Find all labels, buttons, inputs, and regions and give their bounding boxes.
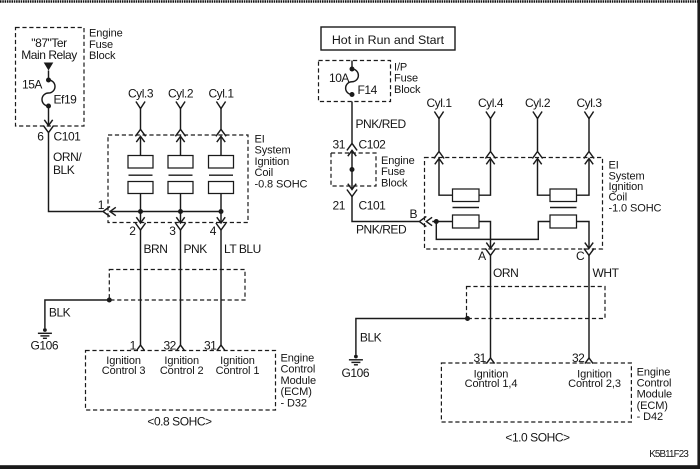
svg-text:3: 3 [169,224,176,238]
svg-text:Cyl.1: Cyl.1 [208,87,234,101]
coil box bottom connector pin 3 [175,217,185,230]
wire primary 2,3 to node C [577,222,590,249]
EI System Ignition Coil box (1.0 SOHC) dashed [425,158,603,250]
svg-text:Fuse: Fuse [89,39,113,51]
junction node bus/coil 3 [219,209,224,214]
relay "87"Ter Main Relay dashed box [16,28,85,127]
spark plug connector Cyl.4 (right) [486,112,495,119]
svg-text:21: 21 [333,199,346,213]
svg-text:Control 1,4: Control 1,4 [465,378,518,390]
coil core line 2 [169,174,193,176]
wire B to junction [432,221,452,223]
wire primary to bus [220,194,222,212]
wire Cyl.3 to coil box [140,109,142,130]
wire coil 3 down to box edge [220,212,222,224]
connector node B into coil box [419,216,432,226]
wire Cyl.3 to coil box (right) [588,119,590,152]
spark plug connector Cyl.1 [216,102,225,109]
coil box bottom connector node A [485,243,495,256]
wire primary to bus [180,194,182,212]
svg-text:1: 1 [98,198,105,212]
coil box top connector Cyl.2 (right) [532,152,542,165]
wire fuse to connector C101 [48,106,50,126]
spark plug connector Cyl.1 (right) [434,112,443,119]
svg-text:<1.0 SOHC>: <1.0 SOHC> [505,431,570,445]
coil box top connector Cyl.1 (right) [434,152,444,165]
coil box bottom connector pin 4 [216,217,226,230]
junction node engine fuse block [350,167,355,172]
svg-text:Ignition: Ignition [255,156,290,168]
svg-text:Cyl.3: Cyl.3 [576,96,602,110]
right border bar [697,0,700,469]
wire through engine fuse block [351,150,353,189]
svg-text:B: B [409,207,417,221]
svg-text:PNK: PNK [184,242,208,256]
svg-text:C102: C102 [359,138,387,152]
svg-text:ORN/: ORN/ [53,150,82,164]
fuse Ef19 15A [42,78,55,109]
ignition coil secondary winding 1 [128,156,153,169]
coil box top connector Cyl.2 [175,129,185,142]
coil box bottom connector node C [584,243,594,256]
coil box top connector Cyl.1 [216,129,226,142]
spark plug connector Cyl.2 (right) [533,112,542,119]
svg-text:PNK/RED: PNK/RED [356,117,407,131]
connector C101 pin 21 [347,184,357,197]
wire PNK/RED to node B [352,197,419,222]
wire Cyl.2 to secondary left end [538,159,551,196]
wire Cyl.4 to secondary right end [479,159,491,196]
wire Cyl.1 to coil box [220,109,222,130]
Hot in Run and Start title box [321,27,455,50]
wire Cyl.2 to coil box (right) [537,119,539,152]
coil 1,4 secondary winding [453,189,480,202]
svg-text:Block: Block [394,84,421,96]
wire primary to bus [140,194,142,212]
svg-text:Cyl.4: Cyl.4 [478,96,504,110]
coil 2,3 core line [550,207,577,209]
junction node shield/ground [107,298,112,303]
svg-text:Block: Block [89,50,116,62]
svg-text:BLK: BLK [49,306,71,320]
wire Cyl.4 to coil box (right) [490,119,492,152]
svg-text:PNK/RED: PNK/RED [356,223,407,237]
coil 1,4 core line [453,207,480,209]
Engine Fuse Block dashed box (right) [331,153,376,186]
junction node bus/coil 2 [178,209,183,214]
wire relay to fuse [48,71,50,81]
svg-text:10A: 10A [329,71,349,85]
feed wire B to coil 2,3 primary [436,222,550,240]
svg-text:Engine: Engine [381,155,415,167]
svg-text:Control 3: Control 3 [102,365,146,377]
wire coil 2 down to box edge [180,212,182,224]
wire WHT node C to ECM [588,255,590,358]
wire Cyl.1 to coil box (right) [438,119,440,152]
wire BLK to ground [45,300,109,328]
wire into secondary [140,136,142,155]
svg-text:C101: C101 [54,130,82,144]
wire ORN/BLK [49,133,103,212]
svg-text:System: System [255,145,291,157]
wire primary 1,4 to node A [479,222,491,249]
svg-text:15A: 15A [22,78,42,92]
wire PNK/RED fuse to C102 [351,102,353,144]
svg-text:Cyl.3: Cyl.3 [128,87,154,101]
svg-text:Cyl.1: Cyl.1 [426,96,452,110]
ground G106 (left) [38,328,52,338]
svg-text:-0.8 SOHC: -0.8 SOHC [255,178,308,190]
EI System Ignition Coil box (0.8 SOHC) dashed [108,135,248,223]
svg-text:LT BLU: LT BLU [224,242,261,256]
fuse F14 10A [346,67,359,98]
spark plug connector Cyl.2 [176,102,185,109]
svg-text:WHT: WHT [593,266,620,280]
ignition coil primary winding 3 [209,182,234,194]
svg-text:A: A [478,249,486,263]
coil box top connector Cyl.4 (right) [485,152,495,165]
wire Cyl.1 to secondary left end [439,159,453,196]
svg-text:-1.0 SOHC: -1.0 SOHC [609,202,662,214]
ignition coil secondary winding 3 [209,156,234,169]
ignition coil primary winding 2 [168,182,193,194]
svg-text:Engine: Engine [281,353,315,365]
ECM connector pin 31 (right) [486,358,494,364]
wire Cyl.3 to secondary right end [577,159,590,196]
coil 1,4 primary winding [453,215,480,228]
svg-text:ORN: ORN [493,266,518,280]
svg-text:Module: Module [281,375,316,387]
wire into secondary [220,136,222,155]
coil 2,3 primary winding [550,215,577,228]
wire down to ECM [180,230,182,345]
svg-text:31: 31 [333,138,346,152]
shield dashed box (left) [109,270,245,301]
coil box top connector Cyl.3 (right) [584,152,594,165]
spark plug connector Cyl.3 (right) [584,112,593,119]
wire BLK to ground (right) [356,319,467,355]
wire coil 1 down to box edge [140,212,142,224]
svg-text:EI: EI [255,134,265,146]
svg-text:2: 2 [129,224,136,238]
svg-text:Control 2,3: Control 2,3 [568,378,621,390]
svg-text:Coil: Coil [255,167,274,179]
svg-text:Cyl.2: Cyl.2 [525,96,551,110]
svg-text:Block: Block [381,177,408,189]
ignition coil primary winding 1 [128,182,153,194]
wire down to ECM [140,230,142,345]
svg-text:4: 4 [210,224,217,238]
svg-text:C101: C101 [359,199,387,213]
wire stub into I/P fuse box [351,61,353,70]
svg-text:BRN: BRN [144,242,168,256]
feed bus wire inside coil box [110,211,222,213]
junction node bus/coil 1 [138,209,143,214]
svg-text:Cyl.2: Cyl.2 [168,87,194,101]
svg-text:C: C [576,249,585,263]
shield dashed box (right) [467,287,606,319]
ignition coil secondary winding 2 [168,156,193,169]
ECM connector pin 32 (right) [585,358,593,364]
svg-text:(ECM): (ECM) [281,386,312,398]
Engine Control Module box D42 dashed [441,363,631,422]
svg-text:- D42: - D42 [637,411,663,423]
coil box top connector Cyl.3 [135,129,145,142]
wire Cyl.2 to coil box [180,109,182,130]
wire ORN node A to ECM [490,255,492,358]
svg-text:BLK: BLK [53,163,75,177]
ECM connector pin 32 [176,345,184,351]
svg-text:Control: Control [281,364,316,376]
I/P Fuse Block dashed box [319,61,391,102]
svg-text:<0.8 SOHC>: <0.8 SOHC> [147,415,212,429]
bottom border bar [0,465,700,469]
svg-text:F14: F14 [358,83,378,97]
svg-text:Ef19: Ef19 [54,93,78,107]
coil 2,3 secondary winding [550,189,577,202]
Engine Control Module box D32 dashed [86,351,276,411]
ECM connector pin 1 [136,345,144,351]
coil box bottom connector pin 2 [135,217,145,230]
svg-text:I/P: I/P [394,62,407,74]
connector C102 pin 31 [347,143,357,156]
connector pin 1 into coil box [103,206,116,216]
wire down to ECM [220,230,222,345]
svg-text:Fuse: Fuse [381,166,405,178]
ECM connector pin 31 [217,345,225,351]
relay output terminal triangle [44,63,54,71]
junction node B [434,219,439,224]
top border bar [0,0,700,2]
svg-text:Control 1: Control 1 [216,365,260,377]
svg-text:G106: G106 [342,366,370,380]
svg-text:Fuse: Fuse [394,73,418,85]
svg-text:6: 6 [37,130,44,144]
svg-text:- D32: - D32 [281,397,307,409]
wire into secondary [180,136,182,155]
ground G106 (right) [349,355,363,365]
coil core line 1 [129,174,153,176]
connector C101 pin 6 [43,120,53,133]
svg-text:G106: G106 [31,339,59,353]
coil core line 3 [209,174,233,176]
svg-text:Main Relay: Main Relay [21,48,77,62]
junction node shield/ground (right) [465,316,470,321]
svg-text:Engine: Engine [89,28,123,40]
svg-text:BLK: BLK [360,331,382,345]
svg-text:Control 2: Control 2 [160,365,204,377]
svg-text:K5B11F23: K5B11F23 [649,449,689,460]
svg-text:Hot in Run and Start: Hot in Run and Start [332,33,445,47]
spark plug connector Cyl.3 [136,102,145,109]
